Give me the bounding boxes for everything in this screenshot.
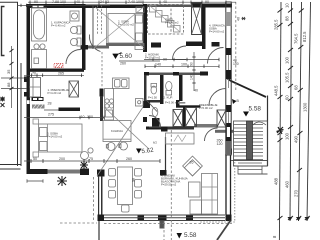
svg-text:90: 90 [205,0,209,4]
wall bathroom bottom [27,69,85,72]
star cluster on v1 [277,127,284,134]
wall corridor bottom band [146,127,166,130]
shaft X box A [173,110,183,127]
wall bed3 top black right [59,108,81,112]
dim line v2 [290,2,292,221]
dim line left h2 [1,88,27,90]
svg-text:100: 100 [285,132,290,140]
X-hatch closet hall [69,81,79,97]
section marker B [232,99,237,104]
bidet [77,38,81,46]
right outer window wall column x226-231 [226,2,231,155]
dim line left h1 [1,77,27,79]
wall hall left corner [24,92,29,97]
neighbour corner top-left [0,2,18,166]
svg-text:P=14.00 m2: P=14.00 m2 [47,135,63,139]
wall wc/bath divider [160,75,164,104]
dashed terrace left [60,222,232,225]
washbasin bathroom [71,42,73,44]
svg-text:P=5.00 m2: P=5.00 m2 [199,106,213,110]
dim line v3 [299,2,302,221]
stair lower box [238,166,262,174]
svg-text:P= 10.50 m2: P= 10.50 m2 [118,23,134,27]
stairs bottom lines [231,161,268,175]
door living arc [205,128,218,141]
stair arc top [252,122,266,126]
stair treads [234,125,264,170]
bed bedroom2 [108,14,135,44]
dashed roof right corner [200,162,235,222]
wall bottom band tee pillar [158,215,167,222]
wall bed3 top hatch [32,105,45,109]
ticks left [10,49,14,90]
wall corridor band y72 [144,72,149,76]
svg-text:140: 140 [155,63,161,67]
dim line y75 hall [24,74,84,76]
X boxes middle [173,108,226,128]
svg-text:100: 100 [233,62,239,66]
wall kitchen left [100,89,104,97]
shaft X box B [186,108,197,127]
door wc diagonal [146,99,158,112]
level marker 5.60 [113,54,119,59]
kitchen counter left [105,89,114,121]
dining table [118,167,133,205]
svg-text:P=4.20 m2: P=4.20 m2 [48,91,62,95]
svg-text:P=29.50 m2: P=29.50 m2 [161,183,177,187]
svg-text:98: 98 [132,178,136,182]
wall vertical x145 bedroom1 right [143,4,147,52]
wall vertical x204 room4 left [202,4,206,49]
dim line y181 [27,179,43,182]
TOP DIMENSION ROWS [17,1,236,8]
svg-text:60: 60 [285,95,290,100]
toilet [77,26,81,34]
arrowheads bottom [288,217,310,221]
svg-text:5.58: 5.58 [184,232,197,239]
svg-text:70: 70 [32,72,36,76]
wall bottom window band blocks [98,215,105,222]
STAIRS [234,121,268,174]
sofa L vertical [202,174,218,215]
wall vertical x84 bathroom right [82,4,86,70]
wall living divider cap [160,170,167,176]
svg-text:10: 10 [285,3,290,8]
armchair rotated [183,156,203,176]
svg-text:260: 260 [126,157,132,161]
dim line top1 [28,1,236,3]
svg-text:6/2: 6/2 [153,141,157,145]
svg-text:50: 50 [33,157,37,161]
door bedroom3 arc [173,46,187,60]
level marker 5.58 top [243,112,249,117]
svg-text:40: 40 [76,0,80,4]
ROOM LABELS (tiny text) [47,18,225,187]
DOORS (arcs) [66,35,226,142]
svg-text:P=3.40 m2: P=3.40 m2 [165,21,179,25]
dining chairs left [109,169,116,177]
neighbour bathtub cut at edge [2,7,5,56]
sofa L horizontal [190,200,202,214]
window cells top band [33,5,38,7]
door entry arc [209,89,226,106]
MIDDLE DIMENSION ROWS [24,58,219,186]
tv cabinet [166,133,195,144]
svg-text:275: 275 [48,113,54,117]
svg-text:488: 488 [274,177,279,185]
kitchen island big [103,121,131,142]
svg-text:200: 200 [59,157,65,161]
ticks v2 [288,9,293,221]
window cell left wall [27,100,30,104]
shaft X box C [217,110,226,127]
wall bed3 bottom band [27,169,48,174]
wall bed3 top window [32,97,44,101]
stairs right edge [267,96,269,167]
svg-text:265: 265 [58,72,64,76]
svg-text:28: 28 [48,102,52,106]
dashed overhang above stairs [235,2,237,91]
ticks v1 [278,9,283,221]
level marker 5.62 [136,149,142,154]
coffee table [189,182,201,197]
closet hall left [30,78,41,98]
wall between shafts [183,108,186,128]
bedroom2 inner edge [106,8,108,43]
bottom window band outline [104,215,225,221]
svg-text:270: 270 [294,189,299,197]
dining chairs right [135,169,142,177]
round table bedroom3 [81,152,89,160]
annotation diagonal A [97,107,143,176]
wall bath bottom L [176,100,180,108]
terrace edge below [98,221,100,240]
corridor fixture box [136,99,144,107]
WALLS [24,4,234,229]
dashed below band x164 [163,221,165,240]
svg-text:460: 460 [285,180,290,188]
wall living left double [98,176,99,215]
hatch strokes over gray bars [33,105,43,109]
dim line y61 [119,60,160,62]
svg-text:448.5: 448.5 [274,85,279,96]
wall corridor jamb blocks [143,101,150,108]
wall top band [27,4,85,8]
svg-text:105.5: 105.5 [285,72,290,83]
neighbour inner line [20,63,22,166]
wall wc left [144,75,147,100]
bathtub [32,8,47,41]
shaft X box top [192,3,202,35]
wc toilet [151,86,157,94]
wall corridor top right segment [186,42,202,47]
LEVEL MARKERS AND BIG LABELS [113,17,262,239]
svg-text:88: 88 [6,82,11,87]
svg-text:P=1.50: P=1.50 [148,96,157,100]
door bedroom2 arc [89,35,100,52]
bedroom2 diagonals [94,7,145,49]
svg-text:812.5: 812.5 [302,31,307,42]
svg-text:90: 90 [34,0,38,4]
dashed door bedroom2 [98,5,102,34]
svg-text:764.5: 764.5 [294,33,299,44]
kitchen stool bowls [107,143,115,151]
RIGHT DIMENSION COLUMN [279,2,310,240]
svg-text:490: 490 [294,135,299,143]
star cluster bed3b [80,161,88,169]
svg-text:40: 40 [194,89,198,93]
svg-text:7.40 100: 7.40 100 [128,0,142,4]
svg-text:140: 140 [190,74,194,80]
wardrobe dashed bedroom1 [148,5,184,35]
svg-text:2. KUP.: 2. KUP. [164,96,173,100]
living right wall double [226,154,231,215]
ticks v4 [305,216,310,220]
neighbour terrace double line [0,165,21,170]
svg-text:5.60: 5.60 [120,53,133,60]
kitchen island top [113,78,130,89]
dim line y161 [24,160,160,162]
wall right column caps [226,149,233,155]
door room4 arc [208,48,224,64]
stair rail dark bar [247,121,253,160]
sink hall top [71,42,73,44]
dim line y66 corridor [145,65,219,67]
bedroom2 left wall line [92,5,94,49]
door corridor-living arc [149,116,161,128]
svg-text:88: 88 [285,16,290,21]
wall left outer [27,4,31,174]
svg-text:KUHINJA: KUHINJA [111,129,123,133]
dashed corridor vertical x102 [101,52,103,88]
wall hall top piece [81,45,89,50]
dim line v4 [307,2,311,221]
svg-text:260: 260 [120,62,126,66]
dashed left of living wall [92,177,94,222]
corridor fixture oval [152,107,158,116]
svg-text:90: 90 [163,57,167,61]
svg-text:5.58: 5.58 [249,106,262,113]
bed bedroom3 [39,124,83,152]
dim line y119 bed3 [24,117,104,119]
svg-text:75: 75 [89,157,93,161]
shower room [32,50,47,69]
window cells bed3 top [33,98,37,100]
svg-text:40: 40 [237,17,241,21]
svg-text:100: 100 [181,63,187,67]
living room long diagonals [97,107,149,176]
svg-text:120: 120 [217,142,223,146]
svg-text:24 13: 24 13 [100,0,109,4]
level marker 5.58 bottom [177,233,183,239]
FURNITURE [30,3,218,214]
svg-text:90: 90 [190,62,194,66]
small marker top right [242,17,246,20]
dim line v1 [279,2,281,240]
LEFT DIMENSION COLUMN [0,46,27,108]
svg-text:285.5: 285.5 [274,19,279,30]
wall bath right [179,75,183,101]
svg-text:40: 40 [163,0,167,4]
svg-text:P=10.40 m2: P=10.40 m2 [145,56,161,60]
door hall arc [66,50,81,65]
bath2 washbasin [166,82,172,91]
terrace diagonal bottom right [217,221,231,240]
svg-text:7.88 100: 7.88 100 [52,0,66,4]
wall piece y110 [44,109,59,111]
star cluster bed3a [57,176,67,186]
red hatch element [54,64,63,68]
star cluster left edge [0,97,5,108]
washing machine [70,11,79,21]
svg-text:26: 26 [190,161,194,165]
annotation diagonal B [104,107,149,149]
svg-text:100: 100 [285,56,290,64]
dining chair bottom [122,205,130,212]
dim line y59.5 [144,59,219,61]
dim line x194 vertical [192,52,195,91]
dim line top2 [17,4,110,6]
svg-text:1300: 1300 [303,102,308,112]
DASHED LINES [60,2,236,240]
wall bed2 bottom thin [106,43,144,46]
roof diagonal to stairs [226,78,266,98]
wall left pilaster [24,77,28,83]
svg-text:100: 100 [87,115,93,119]
dim line left v [11,46,13,108]
svg-text:68: 68 [294,85,299,90]
dashed living vertical [170,130,172,240]
dim ticks top [30,1,226,5]
living divider line [165,137,167,170]
svg-text:P=14.60 m2: P=14.60 m2 [209,30,225,34]
stairs outline [234,121,268,166]
ticks v3 [296,9,304,221]
svg-text:P=3.00 m2: P=3.00 m2 [165,101,179,105]
svg-text:P= 6.40 m2: P= 6.40 m2 [51,24,66,28]
svg-text:10: 10 [81,115,85,119]
svg-text:35: 35 [6,69,11,74]
